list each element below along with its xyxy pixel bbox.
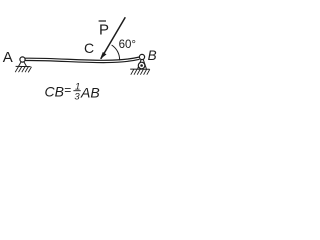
pin support at A: hinge circle	[20, 57, 25, 62]
beam AB (double line)	[25, 57, 140, 63]
overbar of P	[99, 20, 106, 22]
svg-text:AB: AB	[80, 84, 100, 100]
ground hatching at B	[131, 69, 150, 74]
svg-text:=: =	[64, 83, 71, 97]
ground line at B	[130, 68, 149, 70]
equation CB = 1/3 AB	[45, 82, 100, 103]
svg-text:60°: 60°	[119, 39, 136, 51]
svg-text:A: A	[3, 49, 13, 66]
fraction bar	[73, 90, 80, 92]
pin support at A: triangle legs	[19, 62, 27, 67]
roller wheel at B	[138, 62, 145, 69]
svg-text:3: 3	[74, 92, 80, 103]
svg-text:B: B	[148, 48, 157, 63]
svg-text:C: C	[84, 40, 94, 56]
roller support at B: hinge circle	[139, 54, 144, 59]
ground hatching at A	[15, 67, 31, 73]
force P line	[101, 17, 125, 59]
60 degree angle arc	[112, 45, 120, 60]
svg-text:P: P	[99, 22, 109, 39]
force P arrowhead at C	[100, 52, 107, 59]
svg-text:CB: CB	[45, 84, 64, 100]
roller support at B: triangle	[138, 59, 147, 69]
roller axle dot	[140, 64, 143, 67]
ground line at A	[16, 65, 31, 67]
